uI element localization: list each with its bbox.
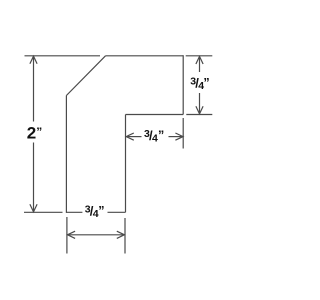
arrowhead down of 2 inch dimension: [30, 204, 37, 212]
arrowhead up of right 3/4 inch dimension: [196, 56, 203, 64]
profile bottom edge left segment: [66, 211, 82, 213]
extension line bottom for 2 inch dimension: [24, 211, 63, 213]
dimension line bottom 3/4 inch: [68, 234, 125, 236]
arrowhead down of right 3/4 inch dimension: [196, 106, 203, 114]
extension line bottom for right 3/4 inch dimension: [186, 114, 212, 116]
extension line right for middle 3/4 inch dimension: [182, 118, 184, 149]
extension line left for bottom 3/4 inch dimension: [66, 217, 68, 254]
dimension line 2 inch upper segment: [33, 57, 35, 122]
profile left edge: [65, 96, 67, 213]
profile rabbet horizontal edge: [126, 114, 184, 116]
dimension line right 3/4 inch upper segment: [199, 57, 201, 72]
profile top edge: [106, 55, 184, 57]
arrowhead right of bottom 3/4 inch dimension: [117, 231, 125, 238]
dimension line middle 3/4 inch right segment: [169, 136, 183, 138]
dimension line right 3/4 inch lower segment: [199, 93, 201, 114]
extension line right for bottom 3/4 inch dimension: [124, 218, 126, 254]
arrowhead right of middle 3/4 inch dimension: [175, 133, 183, 140]
arrowhead left of bottom 3/4 inch dimension: [68, 231, 76, 238]
arrowhead left of middle 3/4 inch dimension: [126, 133, 134, 140]
profile bottom edge right segment: [108, 211, 126, 213]
dimension line 2 inch lower segment: [33, 143, 35, 212]
profile chamfer diagonal: [66, 56, 105, 96]
profile rabbet vertical edge: [125, 115, 127, 213]
arrowhead up of 2 inch dimension: [30, 56, 37, 64]
dimension line middle 3/4 inch left segment: [126, 136, 141, 138]
extension line top for 2 inch dimension: [25, 55, 101, 57]
profile right edge: [182, 55, 184, 114]
extension line top for right 3/4 inch dimension: [186, 55, 213, 57]
